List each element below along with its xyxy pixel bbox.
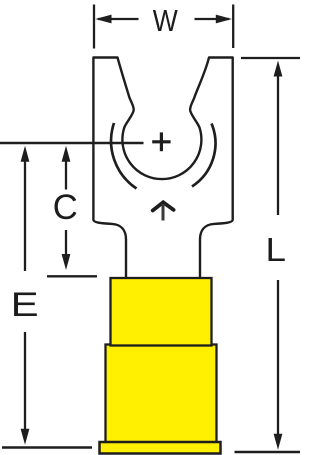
insertion direction arrow (up chevron with stem) (153, 202, 174, 220)
svg-text:W: W (153, 4, 178, 38)
svg-text:C: C (53, 187, 78, 227)
dimension E upper arrow (21, 146, 30, 271)
dimension W left arrow (95, 15, 138, 24)
dimension C lower arrow (62, 230, 71, 270)
dimension C upper arrow (62, 146, 71, 190)
dimension L lower arrow (274, 280, 283, 450)
left reference line (tongue centerline) (0, 142, 144, 144)
left spring-lock arc (111, 123, 136, 189)
dimension W right arrow (195, 15, 233, 24)
fork terminal metal body outline (93, 58, 232, 280)
dimension W extension line right (232, 5, 234, 49)
dimension L upper arrow (274, 61, 283, 216)
dimension E lower arrow (21, 332, 30, 445)
insulation sleeve bottom flange (100, 442, 221, 454)
dimension C baseline (47, 275, 97, 277)
svg-text:E: E (11, 286, 39, 324)
insulation sleeve middle (wide) section (106, 345, 217, 444)
svg-text:L: L (266, 231, 287, 268)
dimension E baseline (2, 446, 92, 448)
insulation sleeve top (narrow) section (111, 278, 212, 346)
stud hole center mark + (152, 132, 170, 151)
right spring-lock arc (192, 124, 215, 187)
dimension W extension line left (93, 5, 95, 49)
bottom reference line for L (235, 451, 301, 453)
top reference line for L (241, 57, 300, 59)
